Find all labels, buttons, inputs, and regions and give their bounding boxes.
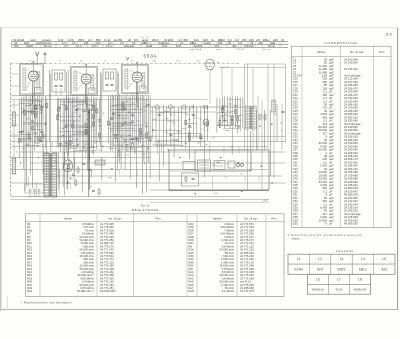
spine resistor bbox=[203, 106, 207, 108]
wire bbox=[63, 146, 76, 148]
svg-text:R11: R11 bbox=[222, 117, 226, 119]
wire bbox=[73, 106, 77, 108]
junction bbox=[19, 132, 20, 133]
capacitor bbox=[65, 141, 68, 143]
svg-text:mod. 550 A: mod. 550 A bbox=[190, 48, 202, 51]
junction bbox=[97, 141, 98, 142]
wire bbox=[108, 147, 117, 149]
svg-text:* Potenziometro con deviatore.: * Potenziometro con deviatore. bbox=[21, 301, 73, 305]
junction bbox=[42, 106, 43, 107]
T2 trimmer C6 bbox=[55, 84, 58, 86]
wire bbox=[32, 129, 43, 131]
svg-text:PV.005.0057: PV.005.0057 bbox=[100, 289, 116, 293]
wire bbox=[270, 110, 272, 176]
resistor bbox=[145, 134, 147, 138]
svg-text:V3: V3 bbox=[131, 61, 134, 63]
svg-text:350: 350 bbox=[14, 44, 19, 48]
svg-text:R17: R17 bbox=[136, 121, 141, 123]
wire bbox=[74, 149, 97, 151]
junction bbox=[238, 126, 239, 127]
junction bbox=[35, 133, 36, 134]
wire bbox=[235, 96, 237, 127]
wire bbox=[50, 158, 52, 169]
svg-text:C16: C16 bbox=[97, 149, 102, 151]
wire bbox=[219, 67, 245, 69]
capacitor bbox=[131, 137, 134, 139]
svg-text:Prix: Prix bbox=[379, 50, 385, 54]
capacitor bbox=[158, 113, 161, 115]
resistor bbox=[72, 124, 74, 128]
scan left edge shading bbox=[0, 27, 2, 311]
wire bbox=[142, 110, 146, 112]
wire bbox=[23, 122, 41, 124]
wire bbox=[113, 144, 123, 146]
coupling cap 2 on spine bbox=[221, 106, 223, 109]
resistor bbox=[219, 121, 221, 125]
svg-text:24.163.900: 24.163.900 bbox=[344, 61, 358, 65]
junction bbox=[271, 124, 272, 125]
resistor bbox=[132, 143, 134, 147]
wire bbox=[93, 136, 95, 138]
resistor bbox=[56, 115, 58, 119]
svg-text:250: 250 bbox=[242, 38, 247, 42]
svg-text:C44: C44 bbox=[214, 193, 219, 195]
resistor R23 bbox=[77, 168, 79, 172]
wire bbox=[88, 147, 95, 149]
wire bbox=[146, 131, 150, 133]
svg-text:C23: C23 bbox=[196, 61, 201, 63]
junction bbox=[66, 109, 67, 110]
resistor bbox=[122, 102, 124, 106]
junction bbox=[142, 145, 143, 146]
wire bbox=[11, 85, 20, 87]
junction bbox=[241, 191, 242, 192]
resistor bbox=[35, 106, 37, 110]
wire bbox=[116, 108, 123, 110]
wire bbox=[11, 134, 20, 136]
wire bbox=[69, 151, 86, 153]
wire bbox=[136, 170, 138, 177]
wire bbox=[120, 96, 122, 169]
resistor bbox=[69, 140, 71, 144]
svg-text:R30: R30 bbox=[108, 177, 113, 179]
svg-text:L6: L6 bbox=[316, 278, 320, 282]
resistor bbox=[42, 134, 44, 138]
junction bbox=[146, 126, 147, 127]
wire bbox=[164, 110, 171, 112]
junction bbox=[73, 121, 74, 122]
junction bbox=[60, 107, 61, 108]
wire bbox=[119, 94, 121, 163]
voltage selector box bbox=[25, 184, 44, 193]
wire bbox=[13, 126, 15, 158]
page border top bbox=[2, 27, 398, 29]
junction bbox=[38, 157, 39, 158]
svg-text:C9: C9 bbox=[240, 174, 243, 176]
coil winding strip left in V3 EBF2 bbox=[125, 69, 128, 89]
wire bus bbox=[30, 162, 286, 164]
V2 EF9 internal wires bbox=[79, 72, 85, 75]
wire bbox=[76, 97, 78, 148]
resistor bbox=[207, 122, 209, 126]
wire bbox=[167, 120, 174, 122]
capacitor C44 bbox=[192, 177, 195, 179]
junction bbox=[77, 108, 78, 109]
wire bbox=[225, 129, 231, 131]
wire bbox=[101, 74, 103, 152]
junction bbox=[87, 127, 88, 128]
wire bbox=[60, 120, 80, 122]
wire bbox=[158, 107, 160, 182]
capacitor bbox=[112, 112, 115, 114]
resistor bbox=[31, 110, 33, 114]
schematic dashed top rail bbox=[11, 62, 240, 64]
magic eye tube V4 bbox=[206, 59, 215, 70]
wire bbox=[77, 96, 79, 148]
wire bbox=[28, 97, 30, 147]
wire bbox=[143, 95, 145, 161]
wire bbox=[27, 110, 36, 112]
wire bbox=[228, 115, 241, 117]
wire bus bbox=[20, 151, 286, 153]
wire bbox=[281, 104, 283, 150]
junction bbox=[58, 114, 59, 115]
wire bbox=[64, 125, 86, 127]
junction bbox=[174, 122, 175, 123]
junction bbox=[178, 141, 179, 142]
wire bbox=[155, 107, 157, 146]
svg-text:1M: 1M bbox=[84, 144, 87, 146]
wire bbox=[74, 158, 76, 172]
wire bbox=[70, 183, 72, 190]
wire bbox=[110, 105, 132, 107]
wire bbox=[236, 124, 238, 126]
wire bbox=[58, 152, 60, 178]
capacitor bbox=[92, 189, 95, 191]
svg-text:R30: R30 bbox=[230, 147, 235, 149]
tube V2 EF9 grid cap bbox=[86, 64, 87, 65]
resistor bbox=[231, 121, 233, 125]
wire bbox=[113, 122, 123, 124]
wire bbox=[245, 67, 286, 69]
junction bbox=[219, 120, 220, 121]
wire bbox=[230, 110, 236, 112]
junction bbox=[130, 148, 131, 149]
wire bbox=[57, 145, 78, 147]
svg-text:L8: L8 bbox=[358, 278, 362, 282]
chassis vertical divider bbox=[250, 150, 252, 171]
wire bbox=[21, 97, 23, 142]
wire bbox=[156, 144, 184, 146]
wire bbox=[13, 100, 15, 112]
wire bbox=[136, 96, 138, 188]
wire bbox=[19, 134, 34, 136]
svg-text:T3: T3 bbox=[104, 61, 107, 63]
resistor R24 bbox=[185, 177, 187, 181]
junction bbox=[158, 141, 159, 142]
wire bbox=[141, 133, 147, 135]
wire bbox=[66, 163, 68, 189]
junction bbox=[222, 109, 223, 110]
wire bbox=[211, 176, 213, 189]
wire bbox=[68, 158, 70, 169]
heavy lead wire 2 bbox=[89, 110, 91, 190]
wire bbox=[130, 97, 132, 179]
wire bbox=[237, 97, 239, 134]
wire bbox=[258, 176, 260, 181]
page border right bbox=[397, 28, 399, 310]
resistor bbox=[122, 106, 124, 110]
tube V3 EBF2 heavy cathode leads bbox=[135, 82, 137, 103]
switch wafer box bbox=[214, 161, 225, 170]
capacitor bbox=[75, 108, 78, 110]
wire bbox=[19, 139, 33, 141]
lamp table frame bbox=[288, 254, 395, 274]
wire bbox=[90, 170, 92, 178]
wire bbox=[231, 68, 233, 97]
junction bbox=[65, 126, 66, 127]
tube V1 ECH4 heavy cathode leads bbox=[32, 81, 34, 104]
svg-text:riv.: riv. bbox=[211, 38, 215, 42]
svg-text:C3: C3 bbox=[201, 129, 204, 131]
T3 trimmer C11 bbox=[106, 83, 109, 85]
junction bbox=[232, 119, 233, 120]
junction bbox=[144, 162, 145, 163]
wire bbox=[181, 106, 183, 147]
coil winding strip left in V2 EF9 bbox=[74, 71, 77, 91]
junction bbox=[253, 108, 254, 109]
svg-text:lampada: lampada bbox=[124, 44, 135, 48]
wire bbox=[242, 97, 244, 128]
svg-text:C20: C20 bbox=[152, 61, 157, 63]
wire bbox=[219, 98, 221, 128]
svg-text:R12: R12 bbox=[176, 61, 181, 63]
capacitor bbox=[124, 107, 127, 109]
wire bbox=[98, 98, 100, 143]
earth terminal bbox=[44, 53, 46, 55]
junction bbox=[110, 124, 111, 125]
wire bbox=[41, 97, 43, 143]
stage2 lower screen box bbox=[72, 101, 94, 127]
wire bbox=[174, 141, 205, 143]
wire bbox=[59, 115, 80, 117]
wire bbox=[11, 114, 20, 116]
wire bbox=[127, 150, 144, 152]
output transformer T4 primary bbox=[245, 106, 249, 129]
wire bbox=[152, 144, 180, 146]
junction bbox=[21, 112, 22, 113]
junction bbox=[70, 178, 71, 179]
chassis rail under shield boxes bbox=[11, 95, 150, 97]
wire bbox=[109, 96, 111, 151]
svg-text:T2: T2 bbox=[59, 61, 62, 63]
wire bbox=[84, 110, 97, 112]
chassis outline box bbox=[169, 150, 269, 190]
svg-text:fusibile: fusibile bbox=[194, 44, 203, 48]
junction bbox=[125, 122, 126, 123]
resistor bbox=[35, 105, 37, 109]
wire bbox=[73, 97, 75, 180]
wire bbox=[69, 97, 71, 149]
wire bbox=[27, 100, 41, 102]
junction bbox=[178, 131, 179, 132]
wire bbox=[100, 176, 102, 181]
wire bbox=[82, 111, 89, 113]
svg-text:C21: C21 bbox=[198, 119, 203, 121]
resistor bbox=[140, 128, 142, 132]
wire bbox=[59, 136, 61, 138]
scale drive cord bbox=[169, 190, 269, 192]
wire bbox=[11, 104, 20, 106]
junction bbox=[126, 136, 127, 137]
wire bbox=[87, 97, 89, 171]
wire bbox=[244, 176, 246, 182]
wire bbox=[55, 158, 57, 163]
wire bbox=[55, 88, 57, 96]
svg-text:R7: R7 bbox=[123, 119, 126, 121]
wire bbox=[73, 133, 88, 135]
svg-text:L2: L2 bbox=[318, 257, 322, 261]
wire bbox=[82, 147, 92, 149]
capacitor bbox=[65, 125, 68, 127]
wire bbox=[22, 147, 26, 149]
junction bbox=[41, 141, 42, 142]
wire bbox=[247, 64, 249, 190]
wire bbox=[91, 97, 93, 148]
detector spine wire bbox=[150, 106, 244, 108]
svg-text:EF9: EF9 bbox=[317, 267, 323, 271]
wire bbox=[35, 98, 37, 144]
capacitor bbox=[125, 144, 128, 146]
wire bbox=[163, 105, 165, 166]
junction bbox=[30, 104, 31, 105]
svg-text:24.771.575: 24.771.575 bbox=[240, 289, 254, 293]
wire bus bbox=[150, 189, 268, 191]
wire bbox=[57, 136, 72, 138]
junction bbox=[89, 112, 90, 113]
wire bbox=[147, 147, 149, 154]
T5 core bbox=[49, 153, 51, 197]
wire bbox=[157, 142, 159, 155]
wire bus bbox=[11, 169, 268, 171]
T2 secondary winding bbox=[60, 73, 63, 80]
svg-text:C15: C15 bbox=[87, 114, 92, 116]
resistor bbox=[189, 133, 191, 137]
resistor bbox=[185, 120, 187, 124]
capacitor bbox=[111, 117, 114, 119]
svg-text:R19: R19 bbox=[145, 133, 150, 135]
wire bus bbox=[45, 175, 282, 177]
wire bbox=[31, 96, 33, 188]
junction bbox=[220, 157, 221, 158]
wire bbox=[231, 96, 233, 154]
wire bbox=[62, 99, 64, 187]
wire bbox=[186, 114, 190, 116]
wire bbox=[224, 96, 226, 128]
wire bbox=[152, 119, 180, 121]
wire bbox=[69, 134, 88, 136]
svg-text:110-220: 110-220 bbox=[244, 44, 254, 48]
wire bbox=[112, 104, 117, 106]
capacitor C30 bbox=[282, 110, 285, 112]
wire bbox=[112, 134, 125, 136]
wire bbox=[256, 110, 258, 150]
wire bbox=[123, 141, 127, 143]
wire bbox=[60, 88, 62, 96]
wire bbox=[81, 99, 83, 193]
svg-text:No. di Cat.: No. di Cat. bbox=[350, 50, 364, 54]
wire bbox=[101, 147, 103, 153]
wire bbox=[138, 97, 140, 145]
wire bbox=[65, 96, 67, 153]
junction bbox=[45, 122, 46, 123]
capacitor C40 bbox=[83, 162, 86, 164]
wire bbox=[46, 98, 48, 182]
lamp table 2 frame bbox=[308, 274, 371, 294]
resistor bbox=[149, 137, 151, 141]
wire bbox=[122, 95, 124, 151]
svg-text:250: 250 bbox=[84, 41, 89, 45]
junction bbox=[166, 118, 167, 119]
junction bbox=[20, 162, 21, 163]
resistor bbox=[115, 134, 117, 138]
wire bbox=[52, 142, 54, 147]
junction bbox=[189, 119, 190, 120]
junction bbox=[185, 143, 186, 144]
tube V1 ECH4 electrodes bbox=[30, 73, 36, 75]
wire bbox=[50, 74, 52, 152]
wire bbox=[167, 133, 201, 135]
capacitor bbox=[131, 113, 134, 115]
junction bbox=[119, 115, 120, 116]
oscillator coil L2 bbox=[12, 158, 15, 174]
wire bbox=[18, 98, 20, 158]
svg-text:C41: C41 bbox=[187, 109, 192, 111]
wire bbox=[151, 106, 153, 138]
svg-text:scala: scala bbox=[146, 44, 153, 48]
wire bbox=[125, 146, 142, 148]
junction bbox=[132, 102, 133, 103]
wire bbox=[261, 100, 263, 190]
wire bbox=[77, 104, 84, 106]
wire bbox=[252, 67, 254, 150]
stage3 lower screen box bbox=[123, 99, 145, 125]
wire bbox=[245, 63, 286, 65]
wire bbox=[236, 114, 243, 116]
switch unit box bbox=[183, 162, 195, 170]
wire bbox=[27, 105, 35, 107]
wire bbox=[264, 110, 266, 150]
wire bbox=[137, 146, 149, 148]
resistor bbox=[92, 115, 94, 119]
IF transformer T2 can bbox=[52, 70, 65, 92]
svg-text:4n: 4n bbox=[249, 170, 251, 172]
wire bbox=[193, 117, 197, 119]
wire bbox=[173, 106, 175, 158]
wire bbox=[228, 99, 241, 101]
svg-text:R E S I S T E N Z E: R E S I S T E N Z E bbox=[132, 208, 158, 212]
svg-text:g2: g2 bbox=[128, 38, 131, 42]
wire bbox=[113, 130, 142, 132]
svg-text:serie: serie bbox=[216, 48, 222, 51]
field coil choke bbox=[272, 100, 276, 112]
wire bbox=[124, 96, 126, 170]
wire bbox=[133, 109, 143, 111]
resistor bbox=[85, 130, 87, 134]
wire bbox=[40, 139, 43, 141]
junction bbox=[136, 140, 137, 141]
wire bbox=[113, 124, 134, 126]
